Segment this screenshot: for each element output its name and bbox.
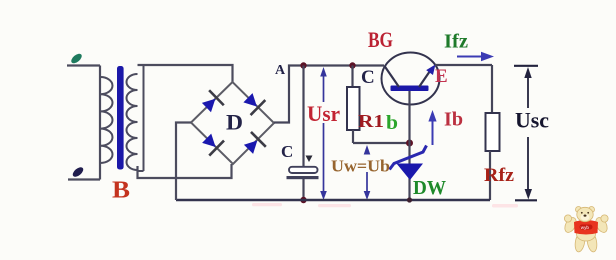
svg-text:Usc: Usc bbox=[515, 108, 549, 133]
Uw=Ub measurement arrow bbox=[364, 145, 371, 200]
diode D4 (bottom-right) bbox=[241, 132, 266, 157]
node A label bbox=[275, 63, 286, 78]
junction dot (zener bottom) bbox=[407, 197, 412, 202]
transformer B primary winding bbox=[100, 66, 113, 180]
svg-text:C: C bbox=[361, 67, 375, 88]
label DW bbox=[413, 177, 446, 199]
wire secondary bottom to bridge bottom corner bbox=[138, 164, 232, 178]
wire bridge minus corner to bottom rail bbox=[176, 123, 191, 201]
label Usc bbox=[515, 108, 549, 133]
watermark smudge right bbox=[492, 204, 518, 208]
diode D1 (top-left) bbox=[199, 90, 224, 115]
svg-text:B: B bbox=[112, 178, 130, 204]
label C (collector) bbox=[361, 67, 375, 88]
svg-text:Ifz: Ifz bbox=[444, 31, 468, 53]
mascot bear watermark bbox=[563, 207, 610, 253]
svg-text:A: A bbox=[275, 63, 286, 78]
resistor R1 bbox=[347, 66, 360, 144]
label B bbox=[112, 178, 130, 204]
svg-text:E: E bbox=[435, 66, 448, 87]
label E (emitter) bbox=[435, 66, 448, 87]
wire R1 bottom to base node bbox=[353, 142, 410, 144]
watermark smudge middle bbox=[318, 204, 351, 207]
Ib current arrow bbox=[428, 110, 436, 145]
svg-text:R1: R1 bbox=[358, 111, 384, 131]
wire primary top terminal bbox=[67, 64, 100, 66]
svg-text:D: D bbox=[226, 110, 243, 135]
svg-text:Uw=Ub: Uw=Ub bbox=[331, 157, 390, 176]
label R1 bbox=[358, 111, 384, 131]
svg-text:Ib: Ib bbox=[444, 109, 463, 131]
terminal dot (green, primary top) bbox=[70, 52, 84, 65]
label Rfz bbox=[484, 165, 515, 186]
label Ib bbox=[444, 109, 463, 131]
label Usr bbox=[307, 101, 340, 126]
transistor base bar bbox=[391, 86, 429, 92]
wire capacitor branch bbox=[302, 66, 304, 201]
junction dot (cap top) bbox=[300, 62, 306, 68]
label C (capacitor) bbox=[281, 142, 293, 161]
svg-text:C: C bbox=[281, 142, 293, 161]
svg-text:wyb: wyb bbox=[581, 225, 590, 230]
wire emitter to right branch bbox=[435, 64, 492, 66]
svg-text:b: b bbox=[386, 112, 398, 134]
svg-text:Rfz: Rfz bbox=[484, 165, 515, 186]
zener diode DW bbox=[390, 143, 427, 200]
transistor BG circle bbox=[382, 53, 440, 105]
label Uw=Ub bbox=[331, 157, 390, 176]
capacitor C polarity mark bbox=[306, 156, 313, 163]
label D bbox=[226, 110, 243, 135]
diode D2 (top-right) bbox=[241, 90, 266, 115]
junction dot (base node) bbox=[406, 140, 413, 147]
Ifz current arrow bbox=[457, 52, 494, 62]
capacitor C plates bbox=[287, 167, 319, 179]
transistor emitter line with arrow bbox=[419, 62, 439, 87]
bottom rail bbox=[176, 199, 490, 202]
svg-text:BG: BG bbox=[368, 27, 393, 52]
junction dot (R1 top) bbox=[349, 62, 355, 68]
svg-text:Usr: Usr bbox=[307, 101, 340, 126]
Usr measurement arrow bbox=[320, 67, 327, 200]
watermark smudge left bbox=[252, 203, 282, 206]
wire primary bottom terminal bbox=[68, 178, 100, 180]
diode D3 (bottom-left) bbox=[199, 131, 224, 156]
transistor base line down bbox=[408, 91, 410, 143]
wire bridge output to node A and top rail bbox=[274, 66, 384, 123]
svg-text:DW: DW bbox=[413, 177, 446, 199]
label b (base) bbox=[386, 112, 398, 134]
label BG bbox=[368, 27, 393, 52]
junction dot (cap bottom) bbox=[300, 197, 306, 203]
wire secondary top to bridge bbox=[138, 65, 233, 82]
label Ifz bbox=[444, 31, 468, 53]
Usc measurement arrow bbox=[514, 66, 538, 201]
transistor collector line bbox=[385, 66, 400, 87]
bridge rectifier diamond bbox=[191, 82, 274, 164]
resistor Rfz bbox=[486, 65, 500, 200]
transformer B secondary winding bbox=[127, 65, 144, 171]
transformer core bbox=[117, 66, 124, 170]
terminal dot (dark navy, primary bottom) bbox=[71, 165, 85, 178]
